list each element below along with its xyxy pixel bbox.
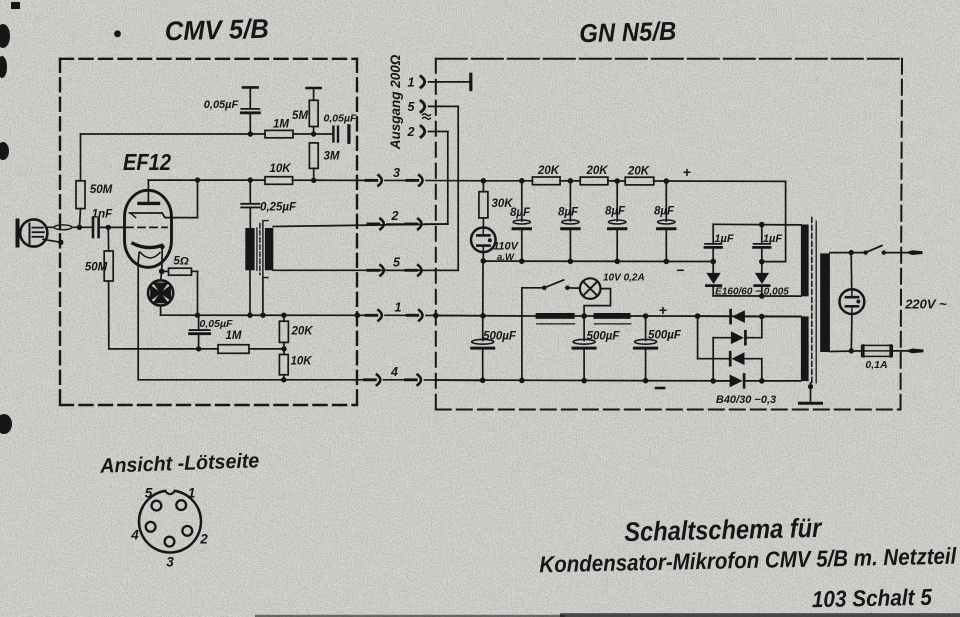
svg-text:3: 3 [166,555,174,570]
capacitor C6 8uF [510,181,531,261]
capacitor C1 1nF [92,209,113,238]
svg-text:20K: 20K [627,165,650,177]
secondary to row2 [273,224,448,227]
svg-text:4: 4 [390,365,398,379]
mains terminal bottom [906,349,924,354]
svg-text:5: 5 [393,256,401,270]
node anode/g2 [195,177,200,182]
output socket pin 5 [408,100,459,270]
svg-text:50M: 50M [90,184,113,196]
heater filament [140,252,160,258]
feedthrough bushing at housing wall [54,225,72,230]
svg-text:220V ~: 220V ~ [904,297,947,312]
E160 top rail [713,223,801,226]
node 0.25uF/primary [248,177,253,182]
node row A left [698,315,731,317]
resistor R11 20K [532,165,580,185]
wire capsule to feedthrough [47,226,54,228]
tube V1 EF12 [123,149,198,271]
svg-text:GN N5/B: GN N5/B [579,16,677,49]
svg-text:2: 2 [407,125,415,139]
transformer T1 [245,221,273,278]
switch S1 (heater) [522,280,580,380]
svg-text:1µF: 1µF [714,233,733,245]
svg-text:2: 2 [391,209,399,223]
svg-text:3M: 3M [324,151,340,163]
capacitor C9 8uF [654,181,675,261]
resistor R13 20K [625,165,785,185]
screen grid g2 [130,212,163,214]
resistor R3 1M [265,119,332,138]
connector pair row 2 [368,219,448,229]
minus rail of 110V filter [483,260,713,262]
wire [72,226,92,228]
minus label heater [656,387,664,390]
output socket pin 1 [408,74,471,89]
svg-text:0,05µF: 0,05µF [204,99,239,111]
capacitor C4 0.25uF [241,180,297,228]
choke L1 [536,313,575,319]
connector pair row 4 [365,375,483,385]
svg-text:+: + [659,302,667,318]
E160 bottom rail [713,295,801,297]
svg-text:110V: 110V [493,241,520,253]
node B+ rail / 30K [481,178,487,184]
connector pair row 3 [366,175,483,185]
svg-text:5Ω: 5Ω [173,256,188,268]
voltage regulator tube U2 110V [471,228,520,264]
svg-text:0,05µF: 0,05µF [200,318,233,330]
row C diode [697,316,699,359]
svg-text:5M: 5M [292,110,308,122]
control grid g1 (dashed) [126,226,167,228]
diode D1 (selenium) [706,262,720,296]
node [281,346,286,351]
mains terminal top [906,250,923,255]
svg-text:10K: 10K [269,163,291,175]
node [195,313,200,318]
svg-text:Ausgang 200Ω: Ausgang 200Ω [388,54,403,150]
power transformer T2 [801,217,830,383]
svg-text:8µF: 8µF [654,206,675,218]
svg-text:8µF: 8µF [510,207,531,219]
approx symbol [423,114,431,120]
svg-text:500µF: 500µF [483,331,517,343]
node [248,131,253,136]
node grid side [106,225,111,230]
switch S2 (mains) [863,246,907,255]
glow lamp U3 [840,253,865,351]
resistor R10 10K [279,349,312,380]
svg-text:1M: 1M [226,330,242,342]
resistor R2 50M (lower) [85,227,113,349]
node lamp tap [575,315,594,317]
resistor R14 30K [479,181,513,228]
node mid 2 [759,259,765,265]
fuse 0.1A [862,345,907,371]
resistor R1 50M (upper) [76,134,113,227]
row D diode [713,380,729,382]
resistor R4 5M with open terminal [292,88,321,134]
svg-text:−: − [676,262,684,278]
svg-text:5: 5 [145,486,153,501]
capacitor C7 8uF [558,181,579,261]
svg-text:8µF: 8µF [558,207,579,219]
capacitor C14 500uF [635,316,682,381]
capacitor C3 0.05uF (series, output) [324,113,357,143]
node row1 at box edge [355,313,361,319]
resistor R8 1M [218,330,284,353]
svg-text:CMV 5/B: CMV 5/B [164,14,269,47]
capacitor C5 0.05uF (cathode) [190,315,233,349]
node 20K top [281,313,286,318]
capacitor C11 1uF [754,225,783,262]
capacitor C10 1uF [705,224,734,261]
wire top net y=134 [81,133,266,135]
svg-text:50M: 50M [85,262,108,274]
primary bottom wire [830,350,862,353]
svg-text:10V 0,2A: 10V 0,2A [603,273,645,284]
heater rail [436,315,536,318]
svg-text:1: 1 [408,76,415,90]
wire 5ohm down to row1 [197,271,199,315]
minus rail heater [436,379,730,382]
wire +110V takeoff [762,181,786,261]
row1 wire in box [161,314,367,316]
svg-text:Schaltschema für: Schaltschema für [624,513,823,547]
svg-text:E160/60 − 0,005: E160/60 − 0,005 [715,287,789,298]
node row1 at GN box edge [433,313,439,319]
node E160 mid-left [710,259,716,265]
cathode junction node [159,269,165,275]
CMV 5/B microphone enclosure box (dashed) [60,59,357,405]
svg-text:EF12: EF12 [123,149,171,175]
cathode [133,244,162,248]
shield lead [262,278,264,316]
primary top wire [830,252,866,254]
capacitor C13 500uF [573,316,620,381]
connector pair row 1 [366,310,483,320]
wire 1nF to grid [100,226,127,228]
bridge rectifier B40/30 [698,310,801,406]
chassis ground [800,383,822,403]
svg-text:1µF: 1µF [763,233,782,245]
svg-text:B40/30 −0,3: B40/30 −0,3 [716,394,776,406]
capacitor C2 0.05uF with open terminal [204,87,260,134]
svg-text:0,25µF: 0,25µF [260,202,297,214]
capacitor C12 500uF [472,331,517,381]
svg-text:500µF: 500µF [648,330,682,342]
svg-text:+: + [683,164,691,180]
svg-text:20K: 20K [585,165,608,177]
diode D2 (selenium) [755,262,769,296]
svg-text:2: 2 [199,532,208,547]
svg-text:1: 1 [188,486,196,501]
resistor R5 3M [309,143,340,180]
resistor R7 5ohm [162,256,198,276]
node 3M bottom [311,178,316,183]
wire 50M bottom to 1M [109,348,218,350]
svg-text:1M: 1M [273,119,289,131]
svg-text:103 Schalt 5: 103 Schalt 5 [812,584,934,613]
primary bottom lead [249,270,251,315]
microphone capsule M1 [16,219,48,248]
row B diode [713,337,731,339]
capacitor C8 8uF [605,181,626,261]
B+ rail segment [483,180,532,182]
connector pair row 5 [368,265,458,275]
svg-text:5: 5 [408,100,416,114]
connector solder-side view [130,486,208,570]
svg-text:8µF: 8µF [605,206,626,218]
secondary to row5 [273,269,458,271]
svg-text:3: 3 [393,166,400,180]
title CMV 5/B [114,14,269,47]
resistor R12 20K [580,165,625,185]
regulator bottom lead [482,252,484,261]
node input [77,225,82,230]
resistor R6 10K [265,163,367,184]
choke L2 [594,313,631,319]
wire regulator column down [482,261,484,341]
svg-text:1nF: 1nF [92,209,113,221]
node 10K bottom [281,377,286,382]
anode plate [139,202,159,205]
output socket pin 2 [407,125,448,224]
svg-text:500µF: 500µF [587,331,621,343]
lamp 10V 0.2A [580,273,645,317]
node (capsule back plate to housing) [58,240,63,245]
crossed-circle element (capsule heating) [148,271,173,315]
node [196,346,201,351]
svg-text:0,05µF: 0,05µF [324,113,357,125]
svg-text:20K: 20K [290,326,313,338]
resistor R9 20K [279,315,313,349]
node [311,131,316,136]
wire capsule to housing node [43,239,61,242]
svg-text:4: 4 [130,528,139,543]
svg-text:10K: 10K [290,356,312,368]
svg-text:0,1A: 0,1A [865,359,887,371]
GN N5/B power supply box (dashed) [436,59,902,410]
svg-text:20K: 20K [537,165,560,177]
heater wire down left side [138,253,364,380]
svg-text:1: 1 [395,301,402,315]
anode wire to rail [148,179,265,181]
